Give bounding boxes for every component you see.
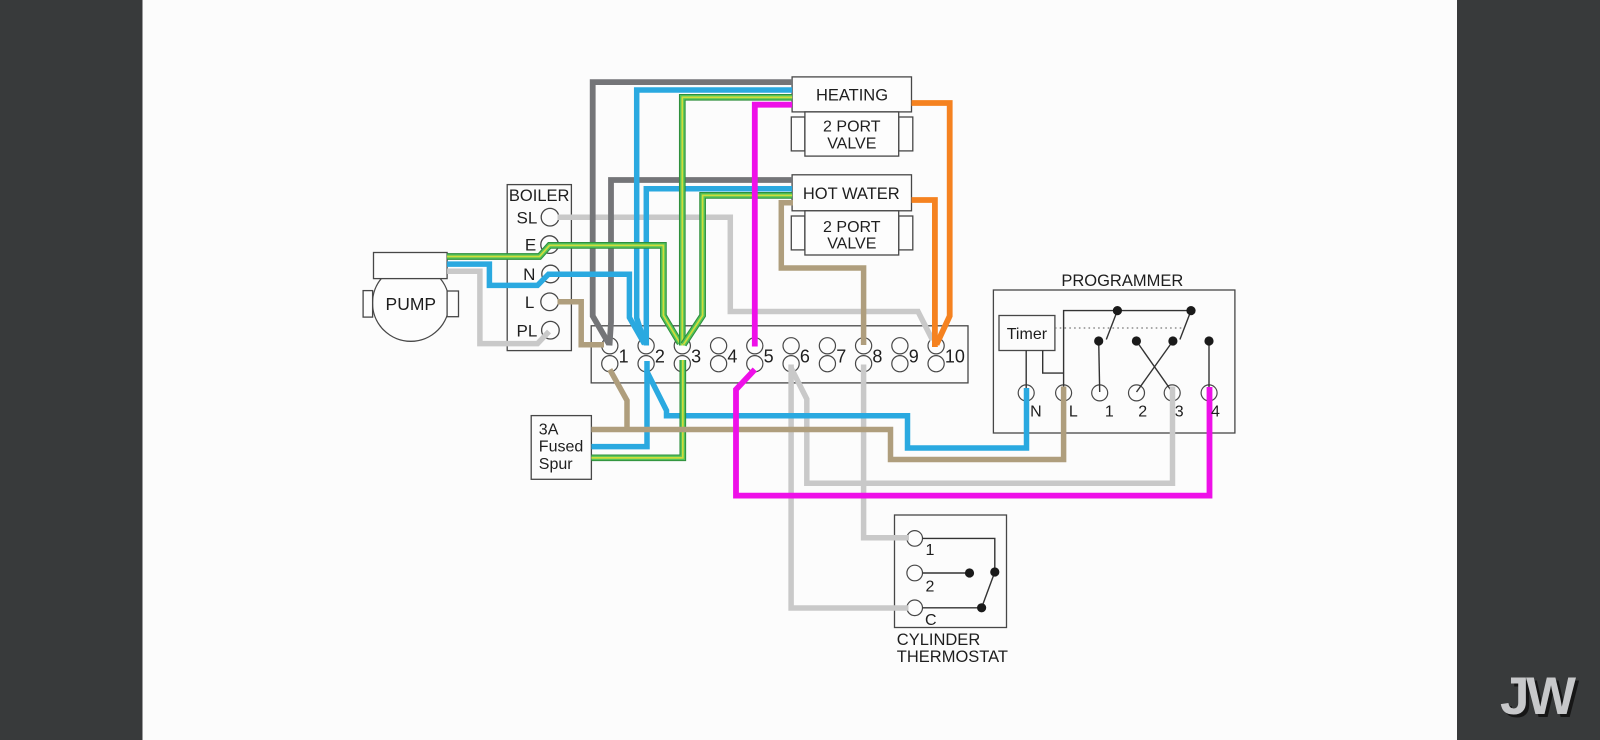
svg-text:Fused: Fused — [539, 439, 583, 456]
stat line from C — [923, 607, 982, 609]
contact line terminal 4 — [1208, 341, 1210, 392]
programmer terminal 4 — [1201, 385, 1217, 401]
3A fused spur box — [531, 416, 591, 480]
cylinder stat terminal 1 — [907, 531, 923, 547]
strip terminal 1 — [602, 338, 618, 372]
heating 2 port valve body — [805, 112, 899, 156]
timer to L link — [1043, 351, 1064, 374]
contact dot 4 — [1204, 336, 1213, 345]
svg-text:3A: 3A — [539, 421, 559, 438]
svg-text:7: 7 — [836, 347, 846, 367]
stat dot on 1 riser — [990, 567, 999, 576]
stat dot on 2 — [965, 568, 974, 577]
svg-text:5: 5 — [764, 347, 774, 367]
wire dark grey heating to terminal 1 — [593, 82, 792, 344]
svg-text:9: 9 — [909, 347, 919, 367]
contact dot 2 — [1132, 336, 1141, 345]
svg-text:2: 2 — [655, 347, 665, 367]
svg-text:2 PORT: 2 PORT — [823, 219, 881, 236]
svg-text:C: C — [925, 612, 937, 629]
wire brown hot water to terminal 8 — [781, 203, 863, 345]
strip terminal 9 — [892, 338, 908, 372]
cylinder stat terminal 2 — [907, 565, 923, 581]
wire blue heating to terminal 2 — [637, 90, 792, 344]
stat line from 2 — [923, 572, 970, 574]
wire brown live bus 3A to programmer L — [591, 387, 1063, 460]
pump junction box — [374, 253, 448, 279]
svg-text:THERMOSTAT: THERMOSTAT — [897, 648, 1008, 666]
programmer box — [993, 290, 1235, 433]
svg-text:VALVE: VALVE — [827, 236, 876, 253]
hot water 2 port valve body — [805, 211, 899, 255]
programmer internal switch wiring — [1026, 311, 1209, 392]
timer box — [999, 316, 1055, 351]
strip terminal 2 — [638, 338, 654, 372]
wire brown terminal 1 down slant — [610, 370, 627, 433]
svg-text:8: 8 — [872, 347, 882, 367]
svg-text:CYLINDER: CYLINDER — [897, 631, 981, 649]
svg-text:4: 4 — [1211, 403, 1220, 420]
letterbox bar right — [1457, 0, 1600, 740]
svg-text:2: 2 — [1138, 403, 1147, 420]
svg-text:BOILER: BOILER — [509, 187, 570, 205]
cylinder thermostat terminals — [907, 531, 923, 616]
boiler terminal E — [541, 236, 559, 254]
watermark JW — [1500, 667, 1579, 729]
svg-text:N: N — [1030, 403, 1042, 420]
svg-text:HEATING: HEATING — [816, 86, 888, 104]
programmer terminal 2 — [1129, 385, 1145, 401]
switch lever CH — [1106, 311, 1117, 340]
svg-text:3: 3 — [691, 347, 701, 367]
contact dot 1 — [1094, 336, 1103, 345]
svg-text:Timer: Timer — [1007, 326, 1048, 343]
boiler terminal box — [507, 185, 571, 351]
programmer terminal 1 — [1092, 385, 1108, 401]
svg-text:2: 2 — [926, 578, 935, 595]
svg-text:6: 6 — [800, 347, 810, 367]
switch pivot dot A — [1113, 306, 1122, 315]
wire magenta terminal 5 to programmer 4 — [736, 370, 1210, 496]
timer to N link — [1025, 351, 1027, 393]
svg-text:PROGRAMMER: PROGRAMMER — [1061, 272, 1183, 290]
wire grey terminal 8 to stat 1 — [864, 365, 909, 538]
svg-text:PUMP: PUMP — [386, 294, 437, 314]
wire blue hot water to terminal 2 — [646, 189, 792, 346]
strip terminal 3 — [674, 338, 690, 372]
svg-text:VALVE: VALVE — [827, 135, 876, 152]
contact line terminal 1 — [1099, 341, 1100, 392]
wire blue pump to N to terminal 2 — [447, 264, 644, 344]
svg-text:1: 1 — [619, 347, 629, 367]
hot water 2 port valve right tab — [899, 216, 913, 250]
switch pivot dot B — [1186, 306, 1195, 315]
svg-text:2 PORT: 2 PORT — [823, 119, 881, 136]
wire grey SL to terminal 10 — [558, 217, 933, 340]
boiler terminal SL — [541, 208, 559, 226]
cylinder stat terminal C — [907, 600, 923, 616]
hot water 2 port valve left tab — [791, 216, 805, 250]
boiler terminal N — [542, 265, 560, 283]
letterbox bar left — [0, 0, 143, 740]
strip terminal 4 — [711, 338, 727, 372]
wire grey terminal 6 to programmer 3 — [791, 368, 1172, 483]
contact line 3 to 2 cross — [1137, 341, 1173, 392]
strip terminal 10 — [928, 338, 944, 372]
svg-text:L: L — [1069, 403, 1078, 420]
contact dot 3 — [1168, 336, 1177, 345]
svg-text:N: N — [523, 265, 535, 284]
pump left flange — [363, 291, 373, 318]
pump body — [373, 265, 450, 342]
wire dark grey hot water to terminal 1 — [610, 180, 793, 346]
svg-text:JW: JW — [1500, 667, 1576, 726]
svg-text:Spur: Spur — [539, 456, 573, 473]
hot water label box — [792, 175, 911, 211]
wire grey terminal 6 to stat C — [791, 365, 908, 609]
svg-text:1: 1 — [1105, 403, 1114, 420]
stat switch lever — [982, 572, 995, 608]
svg-text:L: L — [525, 293, 534, 312]
strip terminal 7 — [819, 338, 835, 372]
strip terminal 5 — [747, 338, 763, 372]
heating 2 port valve left tab — [791, 117, 805, 151]
svg-text:PL: PL — [517, 321, 538, 340]
wire green 3A to terminal 3 — [591, 360, 682, 458]
L riser and switch common bus — [1064, 311, 1191, 392]
cylinder thermostat box — [895, 515, 1007, 628]
svg-text:3: 3 — [1175, 403, 1184, 420]
wire green heating to terminal 3 — [682, 97, 792, 345]
wire green hot water to terminal 3 — [684, 195, 793, 344]
wire magenta heating to terminal 5 — [755, 105, 792, 347]
stat dot on C lever — [977, 603, 986, 612]
svg-text:SL: SL — [517, 208, 538, 227]
heating label box — [792, 77, 911, 112]
heating 2 port valve right tab — [899, 117, 913, 151]
svg-text:E: E — [525, 236, 536, 255]
wire green pump to E to terminal 3 — [447, 245, 680, 343]
wire blue 3A to terminal 2 — [591, 361, 647, 447]
stat line from 1 — [923, 538, 995, 572]
svg-text:HOT WATER: HOT WATER — [803, 185, 900, 203]
wire grey pump to PL — [447, 271, 549, 343]
svg-text:1: 1 — [926, 542, 935, 559]
mechanical link dashed — [1055, 327, 1184, 329]
boiler terminal PL — [542, 321, 560, 339]
svg-text:4: 4 — [727, 347, 737, 367]
cylinder thermostat internal switch — [923, 538, 995, 607]
strip terminal 8 — [856, 338, 872, 372]
pump right flange — [447, 291, 458, 317]
wire orange hot water to terminal 10 — [912, 200, 935, 347]
contact line 2 to 3 cross — [1136, 341, 1172, 392]
boiler terminal L — [541, 293, 559, 311]
programmer terminal 3 — [1164, 385, 1180, 401]
junction terminal strip — [591, 326, 968, 383]
wire blue terminal 2 to programmer N — [646, 370, 1026, 448]
programmer terminal L — [1056, 385, 1072, 401]
switch lever HW — [1180, 311, 1191, 340]
wire orange heating to terminal 10 — [912, 103, 950, 345]
svg-text:10: 10 — [945, 347, 965, 367]
wire brown boiler L to terminal 1 — [558, 302, 605, 345]
programmer terminal N — [1018, 385, 1034, 401]
strip terminal 6 — [783, 338, 799, 372]
